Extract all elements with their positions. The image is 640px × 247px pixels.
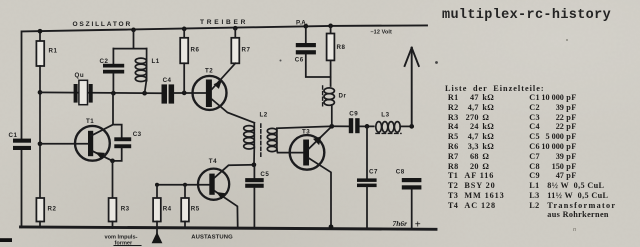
- collector lead: [215, 165, 254, 178]
- capacitor C1: [13, 139, 31, 150]
- capacitor C4: [162, 84, 175, 103]
- node antenna junction: [409, 124, 414, 129]
- collector lead down to rail: [309, 158, 332, 227]
- resistor R3: [109, 198, 117, 222]
- inductor L3 core dashes: [376, 132, 401, 134]
- node top rail / R1: [38, 29, 43, 34]
- antenna: [405, 48, 419, 127]
- emitter lead with PNP arrow: [93, 151, 113, 161]
- node R6 bottom: [182, 91, 187, 96]
- wire crystal line: [40, 91, 162, 94]
- input arrow vom Impulsformer: [152, 232, 163, 243]
- transistor T3: [290, 126, 332, 227]
- node R7 top on rail: [233, 26, 238, 31]
- capacitor C6: [305, 26, 307, 43]
- node T1 base / R2: [38, 141, 43, 146]
- node R6 top on rail: [182, 27, 187, 32]
- choke Dr: [324, 88, 334, 126]
- node L2/C5/T4 junction: [252, 162, 257, 167]
- node emitter/C3: [110, 159, 115, 164]
- bottom-left corner mark: [0, 238, 12, 242]
- wire to C3 top: [113, 125, 122, 138]
- emitter lead up to PA node: [309, 126, 332, 149]
- wire: [360, 125, 374, 127]
- node PA junction: [329, 124, 334, 129]
- node C7 top: [365, 124, 370, 129]
- capacitor C8: [402, 178, 422, 190]
- base wire: [40, 143, 88, 145]
- wire R4 riser: [156, 185, 158, 198]
- node R5 base wire: [183, 183, 187, 187]
- wire tank top bar: [113, 48, 146, 50]
- collector lead: [91, 125, 113, 136]
- resistor R1: [36, 41, 44, 66]
- wire L2 secondary top to PA node: [277, 126, 332, 128]
- node C6 top on rail: [303, 24, 308, 29]
- underline of former: [114, 245, 141, 247]
- wire R1/R2 column: [39, 31, 41, 41]
- resistor R2: [36, 198, 44, 222]
- node L1 bottom: [142, 91, 147, 96]
- wire R5 riser: [184, 185, 186, 198]
- capacitor C9: [332, 125, 349, 127]
- bottom rail: [21, 227, 437, 229]
- emitter lead with PNP arrow: [215, 191, 238, 227]
- wire left branch with C1: [21, 31, 23, 138]
- wire: [112, 222, 114, 228]
- wire emitter down to R3: [112, 161, 114, 198]
- inductor L1: [135, 49, 146, 94]
- wire: [184, 222, 186, 228]
- wire: [400, 125, 412, 127]
- wire C3 bottom to emitter node: [113, 148, 122, 161]
- wire tank riser: [133, 30, 135, 49]
- wire R8 to choke: [330, 60, 332, 86]
- capacitor C5: [253, 165, 255, 178]
- emitter lead to L2: [212, 99, 254, 123]
- resistor R8: [327, 34, 335, 61]
- wire L2 secondary bottom to T3 base: [277, 150, 303, 153]
- wire: [39, 66, 41, 144]
- resistor R4: [153, 198, 161, 222]
- watermark text: [442, 8, 611, 23]
- node R4 base wire: [155, 183, 159, 187]
- node tank riser on rail: [131, 28, 136, 33]
- resistor R7: [231, 38, 239, 64]
- wire C4 to T2 base: [174, 92, 206, 94]
- wire: [183, 63, 185, 93]
- transformer L2 secondary: [267, 128, 277, 151]
- transformer L2 core: [260, 124, 262, 158]
- inductor L3: [376, 122, 400, 133]
- battery polarity mark: [393, 219, 421, 231]
- transistor T2: [193, 63, 255, 123]
- collector lead to R7: [212, 63, 235, 89]
- wire R4 through rail to input arrow: [156, 222, 158, 234]
- node C2 / T1 collector riser: [111, 91, 116, 96]
- wire: [39, 222, 41, 228]
- node R1 bottom / crystal wire: [38, 90, 43, 95]
- paper specks: [280, 60, 282, 62]
- wire: [39, 144, 41, 198]
- wire: [183, 29, 185, 38]
- resistor R6: [180, 38, 188, 64]
- node T3 at rail: [329, 224, 334, 229]
- transistor T4: [157, 165, 254, 227]
- transformer L2 primary: [244, 123, 255, 165]
- capacitor C2: [112, 49, 114, 64]
- base wire: [157, 184, 209, 186]
- capacitor C3: [114, 137, 131, 148]
- transistor T1: [40, 125, 113, 161]
- resistor R5: [181, 198, 189, 222]
- crystal Qu: [74, 80, 93, 104]
- choke Dr core: [322, 86, 324, 107]
- top supply rail -12V: [23, 25, 428, 31]
- wire: [234, 28, 236, 38]
- schematic text labels: [9, 19, 405, 241]
- capacitor C7: [366, 126, 368, 178]
- node R8 top on rail: [328, 24, 333, 29]
- wire: [330, 26, 332, 34]
- wire collector riser to crystal line: [112, 93, 114, 124]
